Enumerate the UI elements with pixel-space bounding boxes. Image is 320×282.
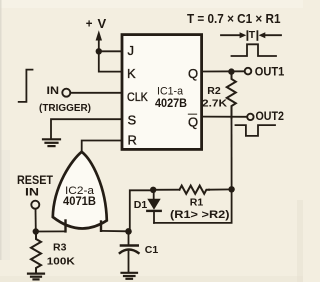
svg-text:100K: 100K [47, 256, 75, 268]
svg-text:Q: Q [188, 66, 198, 81]
wire node A down to K pin [99, 51, 122, 71]
svg-text:OUT2: OUT2 [256, 109, 285, 123]
wire RESET to node B [35, 209, 37, 231]
wire IN to CLK pin [71, 92, 123, 94]
wire R2 down to node E [231, 117, 233, 189]
capacitor C1 [128, 234, 130, 244]
wire node A to J pin [99, 50, 122, 52]
svg-text:T: T [249, 29, 256, 41]
RESET terminal circle [31, 201, 39, 209]
wire node D to R1 [153, 189, 179, 191]
wire Q-bar to OUT2 [203, 116, 247, 118]
svg-text:OUT1: OUT1 [255, 64, 285, 78]
OR gate IC2-a 4071B [53, 152, 107, 229]
svg-text:+: + [86, 18, 93, 30]
svg-text:K: K [127, 66, 136, 81]
resistor R2 [227, 75, 236, 119]
trigger edge symbol [19, 70, 33, 102]
wire S pin to ground [51, 119, 122, 138]
pulse width measure arrows [221, 29, 281, 41]
OUT1 terminal [245, 68, 252, 75]
svg-text:T = 0.7 × C1 × R1: T = 0.7 × C1 × R1 [187, 11, 281, 26]
IN terminal circle [62, 89, 70, 97]
+V arrow [98, 40, 100, 51]
node D (D1 anode) [150, 187, 156, 193]
svg-text:RESET: RESET [17, 175, 53, 187]
node C (C1 junction) [125, 228, 132, 235]
node E (R1 / R2 junction) [228, 186, 234, 192]
svg-text:(TRIGGER): (TRIGGER) [39, 102, 91, 114]
svg-text:R3: R3 [53, 242, 67, 254]
svg-text:CLK: CLK [127, 90, 148, 104]
svg-text:J: J [128, 43, 135, 58]
ground (C1) [122, 273, 138, 279]
svg-text:R: R [128, 132, 137, 147]
ground (R3) [28, 274, 44, 280]
svg-text:Q: Q [188, 115, 198, 130]
wire OR gate right input to node C [101, 230, 129, 232]
svg-text:D1: D1 [134, 199, 148, 211]
IC1-a 4027B flip-flop [122, 35, 202, 150]
svg-text:(R1> >R2): (R1> >R2) [170, 209, 230, 221]
svg-text:R2: R2 [207, 85, 221, 97]
svg-text:2.7K: 2.7K [202, 97, 227, 109]
wire timing bottom (D1 cathode to node E) [154, 189, 232, 223]
svg-text:V: V [98, 16, 107, 31]
wire node C up to timing network [130, 190, 153, 231]
wire Q to OUT1 [203, 70, 245, 72]
resistor R1 [180, 186, 210, 194]
wire R1 to node E [209, 188, 232, 190]
OR gate input legs [64, 221, 66, 232]
node B (reset / R3 junction) [33, 228, 39, 234]
svg-text:4027B: 4027B [155, 96, 187, 110]
wire node B to OR gate left input [36, 230, 66, 232]
svg-text:IN: IN [25, 187, 39, 199]
OUT2 pulse waveform [236, 125, 276, 136]
svg-text:IN: IN [47, 85, 60, 97]
diode D1 [153, 190, 155, 199]
svg-text:S: S [128, 112, 137, 127]
node F (Q / R2 junction) [228, 68, 234, 74]
svg-text:4071B: 4071B [63, 194, 96, 208]
OUT1 pulse waveform [232, 44, 277, 56]
resistor R3 [31, 232, 41, 273]
svg-text:R1: R1 [190, 197, 204, 209]
OUT2 terminal [247, 114, 253, 120]
wire OR gate output to R pin [82, 141, 122, 152]
svg-text:C1: C1 [145, 244, 159, 256]
ground (S pin) [43, 139, 60, 146]
node A (+V / J / K tie) [96, 48, 102, 54]
